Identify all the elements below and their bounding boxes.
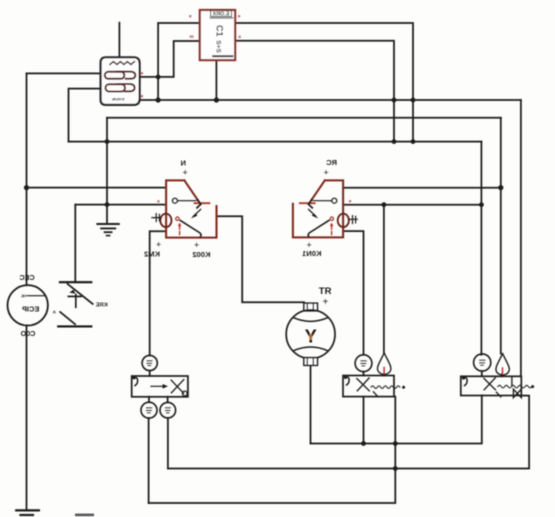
KM2 contact pivot circle (172, 198, 177, 203)
contactor KM2 body (152, 180, 217, 237)
svg-text:a: a (157, 199, 160, 204)
KRE bar 1 (60, 281, 91, 283)
svg-text:e: e (141, 71, 144, 76)
KM1 coil stub with ticks (349, 216, 358, 224)
KM1 lower blade (308, 220, 329, 236)
motor bottom terminal (304, 358, 318, 366)
ground symbol 1 (mid) (97, 224, 118, 236)
wire rail y100 (140, 99, 521, 101)
wire overload left pin1 to left bus (27, 72, 101, 74)
limit switch KRE (58, 282, 92, 326)
motor circle (286, 310, 335, 359)
bottom edge text remnant (75, 514, 94, 517)
svg-text:a: a (238, 35, 241, 40)
motor top terminal (304, 303, 318, 311)
overload pill row 2 (106, 84, 135, 92)
brake 3 lower diagonal (496, 392, 500, 397)
svg-text:K0N1: K0N1 (301, 249, 321, 258)
wire rail y187 right (343, 187, 501, 189)
KM2 contact arm (178, 200, 196, 202)
svg-text:+: + (324, 168, 329, 178)
svg-text:+: + (323, 297, 329, 308)
KRE bar 2 (58, 325, 91, 327)
brake assembly 3 (right) coil circle (461, 354, 534, 398)
KM1 arrow (309, 209, 316, 216)
svg-text:E.ORX: E.ORX (212, 12, 229, 18)
svg-text:K002: K002 (192, 250, 210, 259)
KRE blade1 arrowhead (69, 290, 75, 294)
wire logic box bottom pin (215, 60, 217, 100)
svg-text:ECIP: ECIP (22, 305, 39, 314)
brake 2 squiggle resistor (371, 386, 400, 389)
wire KM2 output to motor (217, 216, 305, 302)
svg-text:e: e (189, 14, 192, 19)
svg-text:m: m (190, 35, 194, 40)
svg-text:e: e (349, 199, 352, 204)
KRE blade 2 (60, 312, 75, 324)
ECEP pointer line (28, 295, 46, 297)
brake 1 hook (134, 378, 138, 386)
machine ECEP circle (8, 285, 48, 325)
svg-text:KM2: KM2 (144, 249, 160, 258)
wire motor bottom (310, 365, 312, 443)
KM2 coil stub with ticks (152, 214, 161, 222)
wire logic box left pin1 (158, 23, 200, 100)
wire mid flame vertical (383, 205, 385, 353)
brake 3 bowtie valve (513, 389, 521, 397)
brake 3 box (461, 376, 522, 395)
wire logic box right pin1 (235, 23, 413, 142)
logic box U1 body (200, 10, 235, 60)
KM2 coil D-ellipse (160, 214, 171, 227)
svg-text:+: + (156, 240, 161, 250)
wire rail y187 left (27, 187, 167, 189)
wire right brake stubs (482, 371, 502, 376)
KRE T actuator (68, 294, 81, 307)
brake assembly 2 (middle) coil circle (343, 353, 405, 397)
svg-text:CEC: CEC (19, 273, 34, 282)
overload pill row 1 (105, 72, 136, 79)
overload relay body (101, 57, 144, 105)
brake 1 coil circle bottom right (160, 402, 176, 418)
brake 3 hook (463, 378, 467, 386)
KM1 red dashed actuator (331, 226, 333, 236)
brake 1 box (132, 376, 188, 397)
wire ECEP bottom to ground (26, 325, 28, 510)
motor bottom cap arc (293, 347, 328, 351)
wire ground branch vertical x107 (106, 118, 108, 224)
wire vertical x500 down to flame (500, 118, 502, 354)
KM1 coil D-ellipse (338, 214, 349, 227)
KM2 arrow (194, 209, 201, 216)
wire rail y443 (311, 395, 482, 443)
svg-text:e: e (141, 94, 144, 99)
svg-text:+: + (183, 168, 188, 178)
svg-text:e: e (238, 14, 241, 19)
wire overload right pin1 (140, 41, 200, 77)
motor top cap arc (293, 318, 328, 322)
wire rail y503 (149, 397, 396, 503)
wire stub above overload relay (118, 23, 120, 58)
svg-text:an.m e: an.m e (112, 97, 125, 102)
wire rail y204 left (75, 204, 166, 206)
wire overload left pin2 (69, 89, 101, 142)
svg-text:N: N (181, 159, 186, 168)
brake 2 hook (345, 377, 349, 385)
KM2 red dashed actuator (179, 226, 181, 236)
brake 3 inner divider (511, 376, 513, 386)
svg-text:C1: C1 (214, 25, 224, 37)
svg-text:C0O: C0O (20, 329, 35, 338)
KM1 fixed contact red stub (300, 202, 315, 204)
wire KM2 coil bottom to left brake (150, 231, 166, 355)
svg-text:RC: RC (326, 158, 337, 167)
KM2 lower blade (180, 220, 201, 236)
brake 2 lower diagonal (373, 392, 377, 397)
wire vertical x481 down to brake circle (480, 142, 482, 355)
brake 2 X contact (357, 378, 369, 391)
brake 2 flame indicator (378, 353, 391, 374)
wire left brake stubs (149, 371, 168, 503)
KM1 lower contact small circle (330, 217, 333, 220)
wire rail y141 (69, 141, 482, 143)
wire left bus vertical (26, 73, 28, 283)
KRE blade 1 (68, 284, 93, 304)
wire rail y468 (168, 396, 529, 469)
brake 1 X contact (171, 380, 184, 394)
svg-text:+: + (194, 240, 199, 250)
wire rail y117 (107, 117, 501, 119)
brake 3 X contact (484, 378, 496, 390)
svg-text:KRE: KRE (96, 303, 108, 309)
wire KRE feed vertical (74, 205, 76, 282)
brake assembly 1 (left) coil circle top (132, 355, 188, 418)
svg-text:A: A (53, 309, 57, 314)
ground symbol 2 (bottom left) (16, 510, 39, 515)
KM2 fixed contact red stub (195, 202, 210, 204)
wire mid brake stubs (364, 372, 385, 444)
KM1 contact pivot circle (332, 198, 337, 203)
brake 3 squiggle resistor (498, 385, 532, 388)
svg-text:+K: +K (20, 294, 27, 299)
brake 1 arrow (151, 385, 163, 387)
contactor KM1 body (293, 180, 357, 237)
brake 3 flame indicator (496, 354, 509, 375)
wire vertical x521 down to right box (520, 100, 522, 376)
KM1 contact arm (313, 200, 331, 202)
wire logic box right pin2 (235, 41, 394, 142)
KM1 beak (308, 200, 312, 208)
wire rail y204 right (343, 204, 481, 206)
brake 1 coil circle bottom left (141, 402, 157, 418)
logic box pin labels (189, 14, 241, 40)
KM2 beak (197, 200, 201, 208)
svg-text:TR: TR (319, 286, 332, 297)
KM2 lower contact small circle (176, 217, 179, 220)
brake 2 box (343, 376, 394, 397)
overload zigzag (110, 62, 134, 65)
svg-text:S+S: S+S (215, 40, 222, 53)
motor TR (286, 303, 335, 365)
wire KM1 lower pin to mid brake (343, 231, 363, 354)
